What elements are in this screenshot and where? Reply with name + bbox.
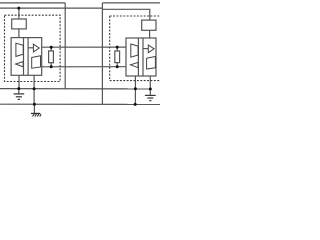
wire barrier to driver input U1 [28,47,33,49]
resistor R1 box [12,19,27,29]
wire bus A interconnect [42,46,126,48]
receiver triangle U1 channel 2 [16,62,24,67]
wire stub R1 to left transceiver box [18,29,20,38]
ground symbol GND1 bars [14,93,25,95]
receiver triangle U1 input side [32,56,41,68]
wire bus B interconnect [42,66,126,68]
junction dot busB at RT1 [50,65,53,68]
driver triangle U2 output side [148,45,154,53]
receiver triangle U2 input side [147,57,156,70]
wire bus line 2 right segment to right resistor [102,9,149,20]
wire bus line 1 right segment [102,2,160,4]
wire bus line 2 left segment [0,7,102,9]
earth symbol E1 stub [33,104,35,113]
wire stub U2 bottom left to earth rail [134,76,136,104]
wire stub bus2 to R1 [18,8,20,19]
isolation barrier U2 line 2 [142,38,144,76]
driver triangle U2 channel 1 [131,44,138,57]
driver triangle U1 output side [33,44,39,52]
wire stub R2 to right transceiver box [149,30,151,38]
termination resistor RT2 box [115,51,120,63]
wire vertical drop V2 from bus1 right to earth rail [101,3,103,105]
isolation barrier U2 line 1 [137,38,139,76]
wire stub U2 bottom right to ground end [149,76,151,89]
isolation barrier U1 line 2 [27,38,29,76]
junction dot ground rail at U2 stub [134,87,137,90]
wire stub U1 bottom left to ground rail [18,75,20,88]
earth symbol E1 bar and hatches [31,112,40,114]
junction dot ground rail end at GND2 [149,88,152,91]
junction dot busA at RT2 [116,46,119,49]
junction dot ground rail at GND1 [17,87,20,90]
wire barrier to driver input U2 [143,48,148,50]
wire stub U1 bottom right to earth rail [33,75,35,104]
junction dot earth rail at U2 stub [134,103,137,106]
dashed isolation boundary box right top edge [110,15,161,17]
junction dot bus2 at R1 [17,7,20,10]
wire stub busA to RT2 [116,47,118,51]
junction dot earth rail at E1 [33,103,36,106]
junction dot busA at RT1 [50,46,53,49]
wire vertical drop V1 from bus1 to ground rail [64,3,66,89]
receiver triangle U2 channel 2 [131,62,139,67]
junction dot ground rail at U1 stub [33,87,36,90]
dashed isolation boundary box right left edge [109,16,111,81]
isolation barrier U1 line 1 [23,38,25,76]
resistor R2 box [142,20,156,30]
ground symbol GND1 stub [18,89,20,94]
wire stub RT2 to busB [116,63,118,67]
junction dot busB at RT2 [116,65,119,68]
wire stub busA to RT1 [50,47,52,51]
driver triangle U1 channel 1 [16,43,23,56]
wire stub RT1 to busB [50,63,52,67]
ground symbol GND2 bars [145,94,156,96]
ground symbol GND2 stub [149,89,151,95]
transceiver U2 outer box [126,38,156,76]
termination resistor RT1 box [49,51,54,63]
wire bus line 1 left segment [0,2,65,4]
wire earth rail L4 [0,103,160,105]
wire ground rail L3 [0,88,150,90]
dashed isolation boundary box right bottom edge [110,80,161,82]
transceiver U1 outer box [11,38,42,76]
dashed isolation boundary box left [5,15,61,81]
